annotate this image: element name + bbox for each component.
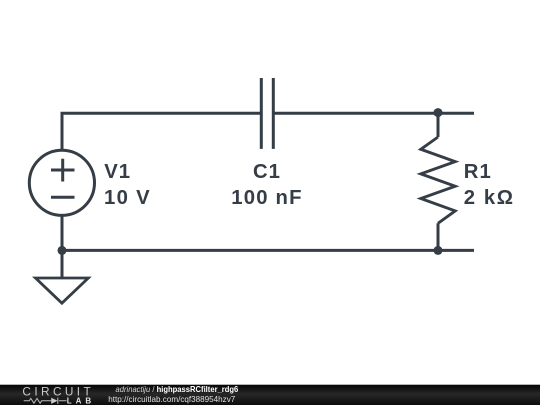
- svg-text:C1: C1: [253, 161, 281, 183]
- svg-text:LAB: LAB: [67, 397, 92, 405]
- svg-text:V1: V1: [104, 161, 131, 183]
- svg-text:100 nF: 100 nF: [231, 187, 302, 209]
- svg-text:10 V: 10 V: [104, 187, 151, 209]
- svg-text:R1: R1: [464, 161, 492, 183]
- svg-text:http://circuitlab.com/cqf38895: http://circuitlab.com/cqf388954hzv7: [108, 394, 235, 404]
- svg-text:2 kΩ: 2 kΩ: [464, 187, 515, 209]
- svg-text:adrinactiju / highpassRCfilter: adrinactiju / highpassRCfilter_rdg6: [116, 384, 239, 394]
